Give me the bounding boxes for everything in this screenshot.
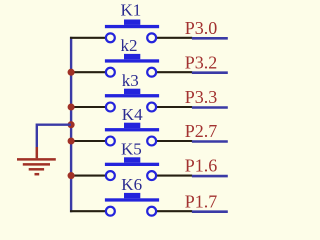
- junction row2: [68, 69, 75, 76]
- svg-text:K5: K5: [121, 139, 142, 158]
- wire: row1 right: [157, 37, 192, 39]
- wire: row2 right: [157, 71, 192, 73]
- svg-text:P3.3: P3.3: [185, 87, 218, 107]
- switch k2: [105, 54, 159, 77]
- net stub P2.7: [192, 140, 228, 143]
- wire: row4 left: [70, 140, 105, 142]
- wire: row3 right: [157, 106, 192, 108]
- wire: row5 left: [70, 175, 105, 177]
- switch K1: [105, 20, 159, 43]
- switch k3: [105, 89, 159, 112]
- wire: row5 right: [157, 175, 192, 177]
- svg-text:P1.7: P1.7: [185, 191, 218, 211]
- net stub P3.3: [192, 106, 228, 109]
- wire: vertical ground bus: [70, 37, 72, 212]
- wire: row1 left: [70, 37, 105, 39]
- switch K4: [105, 123, 159, 146]
- svg-text:K1: K1: [121, 1, 142, 20]
- svg-text:P3.2: P3.2: [185, 52, 218, 72]
- wire: row3 left: [70, 106, 105, 108]
- wire: row4 right: [157, 140, 192, 142]
- switch K6: [105, 193, 159, 216]
- svg-text:K4: K4: [122, 105, 143, 124]
- net stub P3.0: [192, 37, 228, 40]
- svg-text:P3.0: P3.0: [185, 18, 218, 38]
- svg-text:k2: k2: [121, 36, 138, 55]
- svg-text:P2.7: P2.7: [185, 121, 218, 141]
- net stub P1.7: [192, 210, 228, 213]
- junction ground tap: [68, 121, 75, 128]
- switch K5: [105, 157, 159, 180]
- junction row5: [68, 172, 75, 179]
- svg-text:k3: k3: [122, 71, 139, 90]
- svg-text:P1.6: P1.6: [185, 156, 218, 176]
- net stub P3.2: [192, 71, 228, 74]
- svg-text:K6: K6: [121, 175, 142, 194]
- wire: ground tap vertical: [36, 124, 38, 148]
- wire: row2 left: [70, 71, 105, 73]
- ground: [17, 147, 56, 174]
- net stub P1.6: [192, 175, 228, 178]
- junction row4: [68, 137, 75, 144]
- junction row3: [68, 103, 75, 110]
- wire: row6 left: [70, 210, 105, 212]
- wire: row6 right: [157, 210, 192, 212]
- wire: ground tap horizontal: [37, 123, 71, 125]
